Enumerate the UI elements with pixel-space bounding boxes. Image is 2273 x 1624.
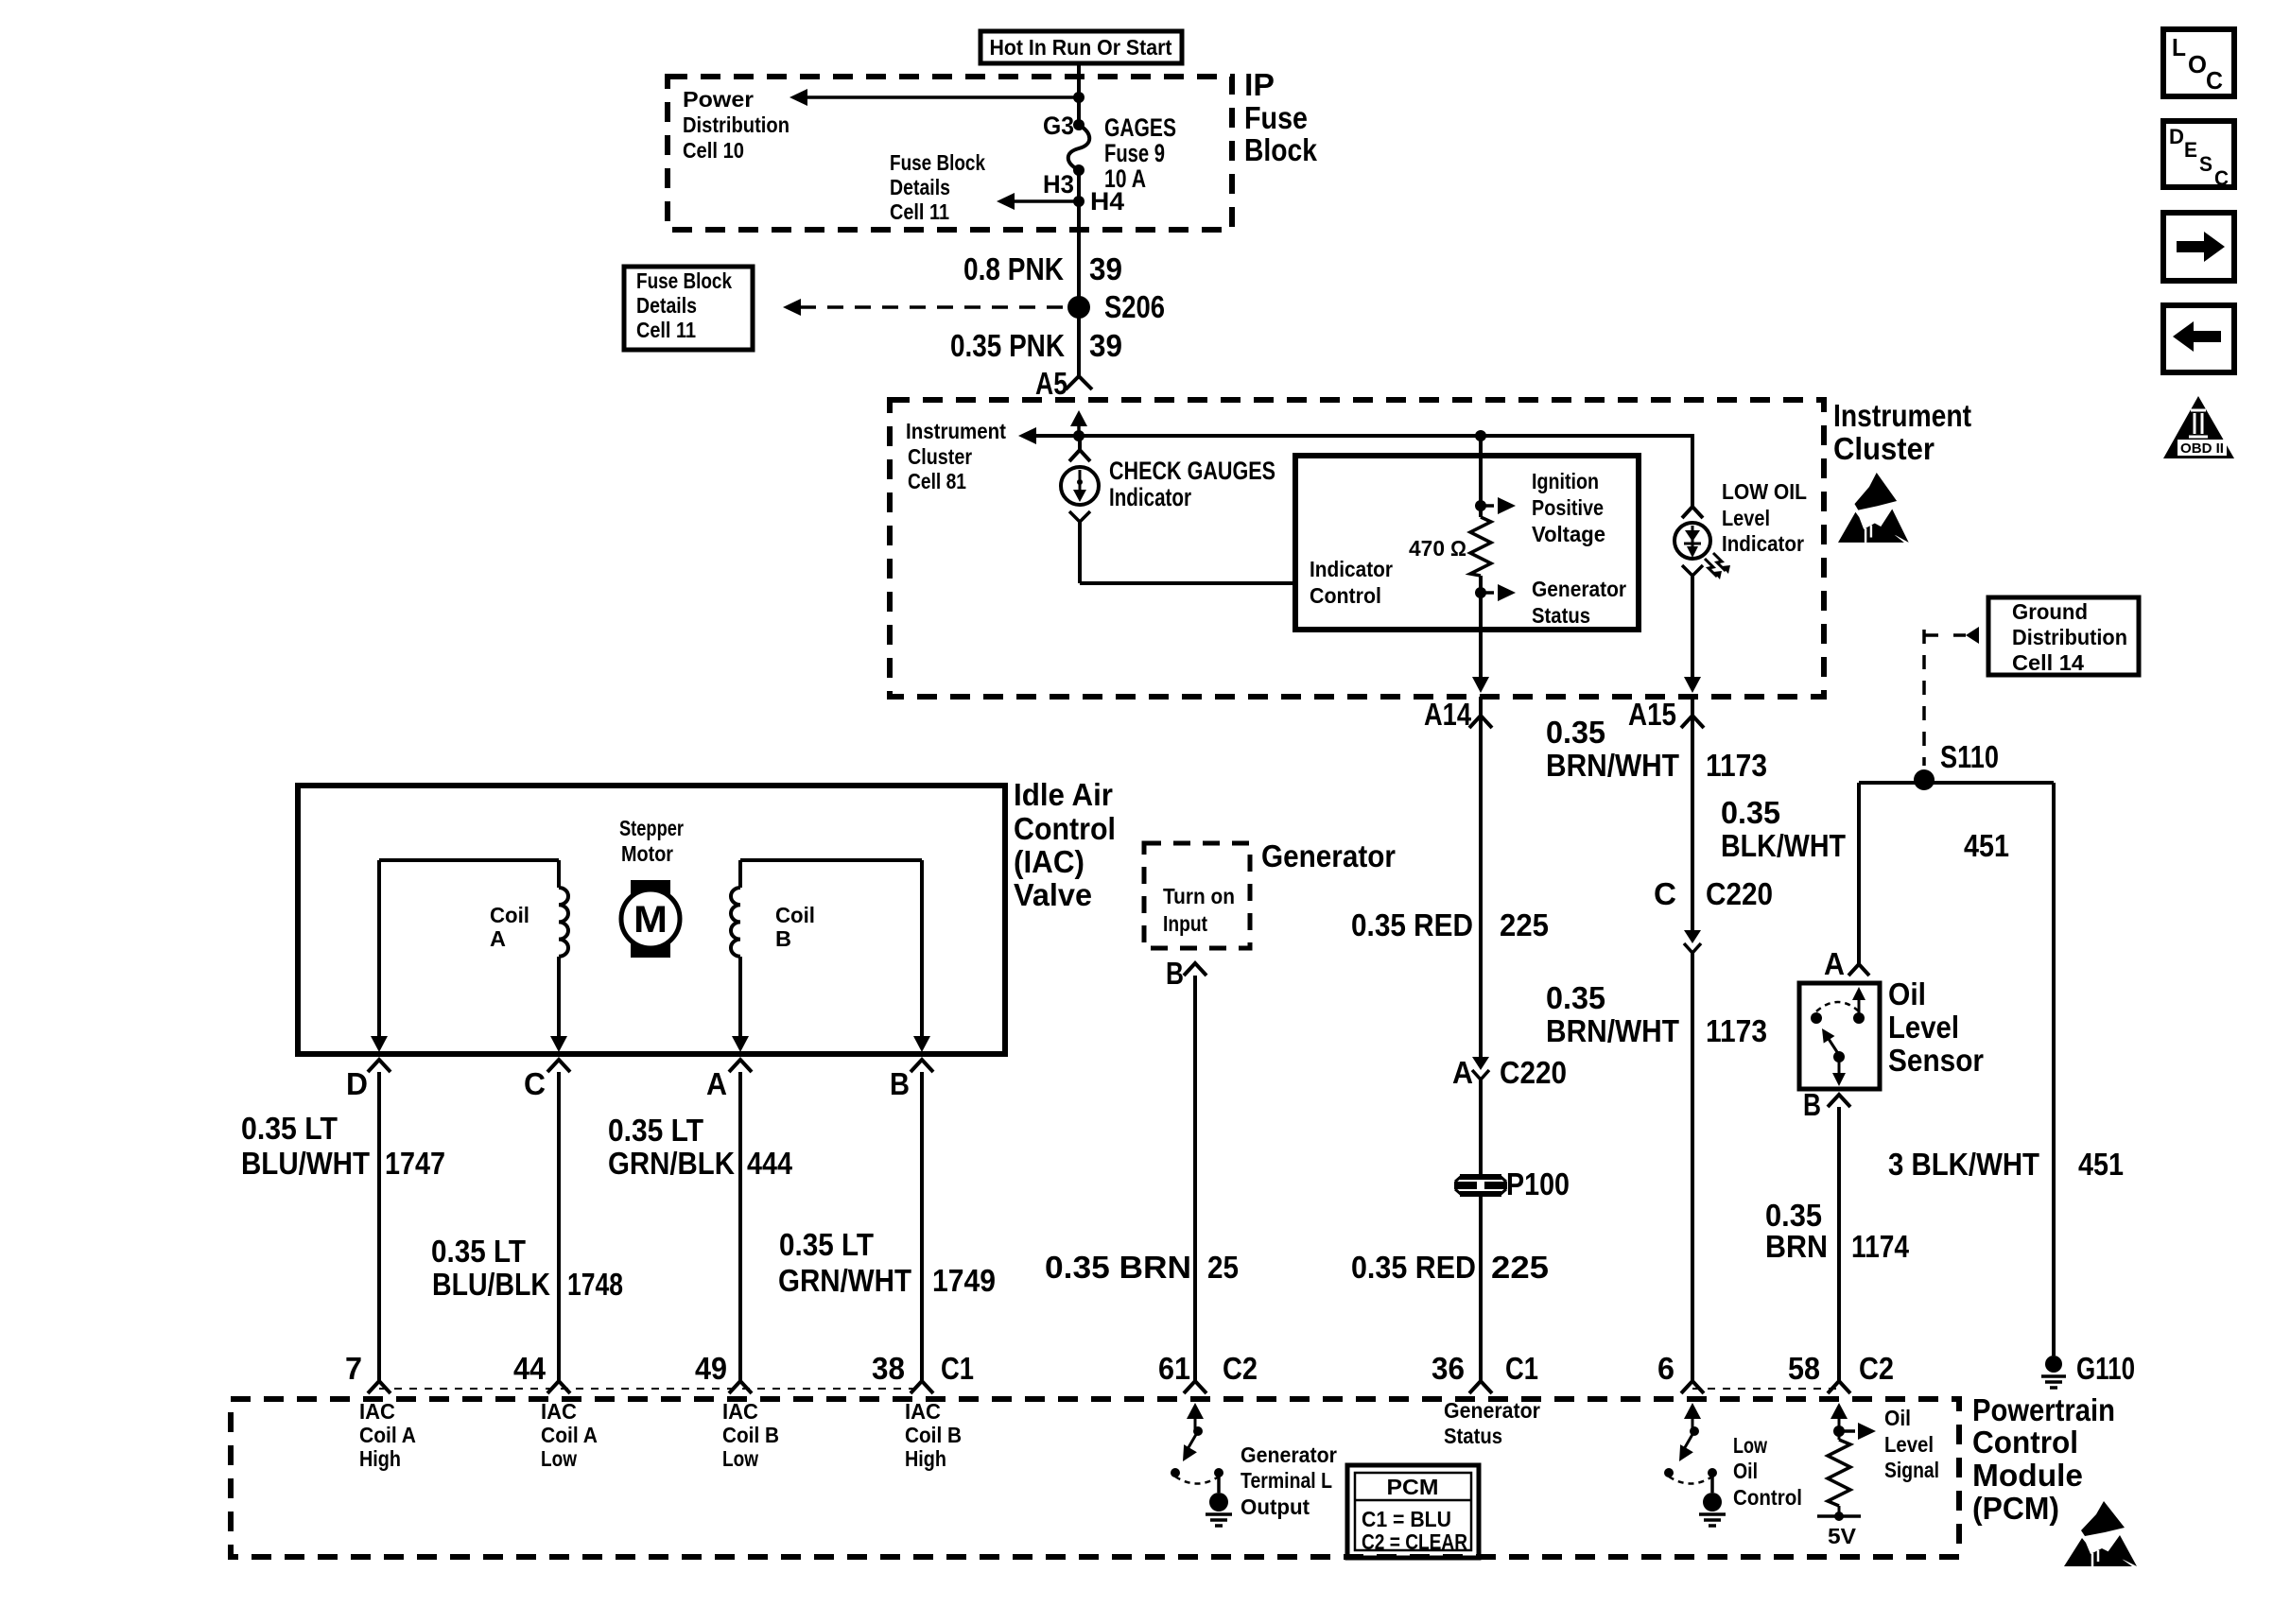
wire: resistor branch from bus	[1479, 436, 1483, 517]
svg-text:Cluster: Cluster	[1833, 431, 1935, 466]
svg-text:Turn on: Turn on	[1163, 884, 1235, 908]
wire: C220 to P100	[1479, 1080, 1483, 1176]
svg-text:1173: 1173	[1706, 748, 1767, 783]
svg-text:Coil: Coil	[775, 903, 815, 927]
svg-text:P100: P100	[1506, 1166, 1570, 1201]
svg-text:A: A	[490, 926, 506, 951]
svg-text:Details: Details	[890, 175, 950, 199]
svg-text:Generator: Generator	[1444, 1398, 1540, 1423]
svg-text:Generator: Generator	[1261, 838, 1396, 873]
svg-text:39: 39	[1089, 328, 1122, 363]
reference box: Ground Distribution Cell 14	[1988, 597, 2139, 675]
svg-text:Voltage: Voltage	[1532, 522, 1605, 546]
svg-text:E: E	[2184, 138, 2197, 162]
svg-text:225: 225	[1500, 907, 1549, 942]
Generator dashed box	[1144, 843, 1250, 948]
svg-text:C: C	[524, 1066, 546, 1101]
wire: generator L terminal to PCM pin 61 (0.35 BRN 25)	[1193, 976, 1197, 1380]
svg-text:(IAC): (IAC)	[1014, 844, 1084, 879]
svg-text:Signal: Signal	[1884, 1458, 1939, 1482]
svg-text:Coil B: Coil B	[722, 1423, 779, 1447]
splice S206 with dashed arrow to Fuse Block Details	[783, 299, 801, 316]
svg-text:7: 7	[345, 1351, 362, 1386]
svg-text:C: C	[2214, 166, 2229, 190]
svg-text:High: High	[905, 1446, 946, 1471]
connector line (thin dashed, pins 6-58)	[1692, 1388, 1839, 1390]
svg-text:Control: Control	[1733, 1485, 1802, 1510]
svg-text:Oil: Oil	[1884, 1406, 1911, 1430]
svg-text:Level: Level	[1722, 506, 1770, 530]
svg-text:Fuse Block: Fuse Block	[636, 268, 732, 293]
icon: ESD warning symbol (instrument cluster)	[1838, 473, 1909, 543]
svg-text:S110: S110	[1940, 739, 1999, 774]
PCM connector legend box	[1347, 1465, 1479, 1558]
switch: generator terminal L output	[1187, 1403, 1204, 1419]
wire: A14 exit from cluster	[1479, 630, 1483, 679]
svg-text:0.35 LT: 0.35 LT	[431, 1234, 526, 1269]
wire: S110 down to oil level sensor A (0.35 BLK/WHT 451)	[1857, 783, 1861, 964]
svg-text:BRN/WHT: BRN/WHT	[1546, 748, 1679, 783]
svg-text:Hot In Run Or Start: Hot In Run Or Start	[990, 35, 1172, 60]
svg-text:0.35 RED: 0.35 RED	[1351, 907, 1473, 942]
box: Oil Level Sensor	[1799, 983, 1880, 1089]
svg-text:B: B	[775, 926, 791, 951]
dashed arrow: S110 to Ground Distribution Cell 14	[1922, 630, 1926, 766]
reference box: Fuse Block Details Cell 11	[624, 267, 753, 350]
svg-text:CHECK GAUGES: CHECK GAUGES	[1109, 457, 1275, 485]
svg-text:Motor: Motor	[621, 841, 673, 866]
svg-text:Positive: Positive	[1532, 495, 1604, 520]
resistor 470 ohm	[1470, 517, 1491, 576]
wire: C220 to PCM pin 6 (0.35 BRN/WHT 1173)	[1691, 953, 1694, 1380]
wire: A15 exit from cluster	[1691, 576, 1694, 679]
fuse F9: GAGES Fuse 9 10 A	[1073, 119, 1084, 130]
svg-text:OBD II: OBD II	[2180, 441, 2224, 457]
wire: IAC C to PCM 44 (0.35 LT BLU/BLK 1748)	[557, 1072, 561, 1380]
svg-text:44: 44	[513, 1351, 547, 1386]
svg-text:Module: Module	[1972, 1458, 2083, 1493]
svg-text:36: 36	[1431, 1351, 1465, 1386]
splice S110	[1914, 769, 1935, 790]
svg-text:C: C	[2206, 66, 2223, 95]
svg-text:Fuse Block: Fuse Block	[890, 150, 985, 175]
svg-text:GRN/WHT: GRN/WHT	[778, 1263, 911, 1298]
stepper motor M symbol	[631, 880, 670, 896]
svg-text:G3: G3	[1043, 112, 1074, 140]
svg-text:3 BLK/WHT: 3 BLK/WHT	[1888, 1147, 2039, 1182]
oil level sensor switch internals	[1852, 987, 1865, 1000]
svg-text:Cell 81: Cell 81	[908, 469, 966, 493]
svg-text:Cell 11: Cell 11	[636, 318, 696, 342]
icon: ESD warning symbol (PCM)	[2064, 1501, 2137, 1566]
svg-text:Stepper: Stepper	[619, 816, 684, 840]
svg-text:Idle Air: Idle Air	[1014, 777, 1113, 812]
svg-text:C1: C1	[1505, 1351, 1538, 1386]
svg-text:C2: C2	[1859, 1351, 1894, 1386]
svg-text:Low: Low	[541, 1446, 577, 1471]
svg-text:49: 49	[695, 1351, 727, 1386]
svg-text:Distribution: Distribution	[2012, 625, 2127, 649]
svg-text:IAC: IAC	[541, 1399, 577, 1424]
svg-text:0.35 PNK: 0.35 PNK	[950, 328, 1065, 363]
svg-text:Instrument: Instrument	[1833, 398, 1971, 433]
svg-text:C: C	[1654, 876, 1676, 911]
svg-text:High: High	[359, 1446, 401, 1471]
wire: sensor B to PCM pin 58 (0.35 BRN 1174)	[1837, 1107, 1841, 1380]
svg-text:Powertrain: Powertrain	[1972, 1392, 2115, 1427]
grommet P100	[1460, 1174, 1501, 1180]
svg-text:Oil: Oil	[1733, 1459, 1758, 1483]
svg-text:Ω: Ω	[1450, 536, 1466, 561]
Powertrain Control Module dashed box	[231, 1399, 1959, 1557]
svg-text:Details: Details	[636, 293, 697, 318]
svg-text:Coil A: Coil A	[541, 1423, 598, 1447]
svg-text:Coil B: Coil B	[905, 1423, 962, 1447]
svg-text:Terminal L: Terminal L	[1241, 1468, 1332, 1493]
svg-text:61: 61	[1158, 1351, 1190, 1386]
wire: IAC D to PCM 7 (0.35 LT BLU/WHT 1747)	[377, 1072, 381, 1380]
box: Indicator Control	[1295, 456, 1639, 630]
svg-text:Status: Status	[1444, 1424, 1502, 1448]
svg-text:Indicator: Indicator	[1722, 531, 1804, 556]
wire: A15 to C220 pin C (0.35 BRN/WHT 1173)	[1691, 697, 1694, 930]
svg-text:L: L	[2172, 33, 2186, 61]
svg-text:GRN/BLK: GRN/BLK	[608, 1146, 735, 1181]
svg-text:Generator: Generator	[1241, 1443, 1337, 1467]
svg-text:5V: 5V	[1828, 1524, 1857, 1548]
svg-text:A5: A5	[1035, 366, 1067, 401]
pull-up resistor to 5V	[1831, 1403, 1848, 1419]
svg-text:IAC: IAC	[722, 1399, 758, 1424]
svg-text:0.35 LT: 0.35 LT	[241, 1111, 338, 1146]
svg-text:H4: H4	[1090, 187, 1124, 216]
ground G110	[2045, 1356, 2062, 1373]
svg-text:0.35: 0.35	[1721, 795, 1780, 830]
svg-text:Control: Control	[1972, 1425, 2078, 1460]
wire: 0.8 PNK 39 segment	[1077, 170, 1081, 376]
svg-text:0.35: 0.35	[1765, 1198, 1822, 1233]
svg-text:C1 = BLU: C1 = BLU	[1362, 1507, 1451, 1531]
svg-text:0.8 PNK: 0.8 PNK	[963, 251, 1064, 286]
svg-text:Ground: Ground	[2012, 599, 2088, 624]
svg-text:M: M	[633, 899, 668, 941]
svg-text:444: 444	[747, 1146, 793, 1181]
arrow: to Power Distribution Cell 10	[789, 89, 807, 106]
svg-text:0.35: 0.35	[1546, 715, 1605, 750]
svg-text:Distribution: Distribution	[683, 112, 789, 137]
svg-text:Sensor: Sensor	[1888, 1043, 1984, 1078]
svg-text:BRN: BRN	[1765, 1229, 1828, 1264]
svg-text:B: B	[1166, 956, 1184, 991]
svg-text:IP: IP	[1244, 67, 1275, 102]
box: Idle Air Control (IAC) Valve	[298, 786, 1005, 1054]
icon: DESC box	[2163, 121, 2234, 187]
svg-text:Input: Input	[1163, 911, 1207, 936]
svg-text:25: 25	[1207, 1250, 1239, 1285]
svg-text:Fuse: Fuse	[1244, 100, 1308, 135]
svg-text:LOW OIL: LOW OIL	[1722, 479, 1807, 504]
wire: cluster internal bus to indicator control and low oil LED	[1018, 427, 1036, 444]
svg-text:0.35 RED: 0.35 RED	[1351, 1250, 1476, 1285]
arrow: A5 entry into cluster	[1070, 410, 1087, 426]
icon: forward arrow box	[2163, 213, 2234, 281]
svg-text:Status: Status	[1532, 603, 1590, 628]
svg-text:BLU/WHT: BLU/WHT	[241, 1146, 370, 1181]
svg-text:0.35: 0.35	[1546, 980, 1605, 1015]
svg-text:Indicator: Indicator	[1310, 557, 1393, 581]
icon: back arrow box	[2163, 305, 2234, 372]
icon: LED light emission arrows	[1705, 559, 1717, 577]
svg-text:C220: C220	[1500, 1055, 1567, 1090]
svg-text:C2 = CLEAR: C2 = CLEAR	[1362, 1529, 1467, 1554]
node + arrow: Ignition Positive Voltage	[1475, 500, 1486, 511]
svg-text:H3: H3	[1043, 170, 1074, 199]
svg-text:Cell 11: Cell 11	[890, 199, 949, 224]
svg-text:Ignition: Ignition	[1532, 469, 1599, 493]
svg-text:Fuse 9: Fuse 9	[1104, 139, 1165, 167]
node: junction at fuse feed	[1073, 92, 1084, 103]
svg-text:1747: 1747	[385, 1146, 445, 1181]
svg-text:Low: Low	[1733, 1433, 1767, 1458]
svg-text:A15: A15	[1628, 697, 1676, 732]
svg-text:D: D	[346, 1066, 368, 1101]
indicator lamp: CHECK GAUGES	[1078, 436, 1082, 452]
svg-text:451: 451	[2078, 1147, 2124, 1182]
svg-text:S206: S206	[1104, 289, 1165, 324]
svg-text:451: 451	[1964, 828, 2009, 863]
svg-text:Cell 10: Cell 10	[683, 138, 744, 163]
svg-text:Output: Output	[1241, 1494, 1310, 1519]
svg-text:Instrument: Instrument	[906, 419, 1006, 443]
svg-text:Control: Control	[1014, 811, 1116, 846]
svg-text:G110: G110	[2076, 1351, 2135, 1386]
Instrument Cluster dashed box	[890, 400, 1824, 697]
svg-text:BLU/BLK: BLU/BLK	[432, 1267, 550, 1302]
svg-text:0.35 LT: 0.35 LT	[779, 1227, 874, 1262]
svg-text:A: A	[1452, 1055, 1473, 1090]
svg-text:Cell 14: Cell 14	[2012, 650, 2084, 675]
wire: A14 to C220 pin A (0.35 RED 225)	[1479, 697, 1483, 1057]
svg-text:1173: 1173	[1706, 1013, 1767, 1048]
svg-text:A: A	[1824, 946, 1845, 981]
icon: OBD II triangle	[2163, 396, 2234, 458]
svg-text:(PCM): (PCM)	[1972, 1491, 2059, 1526]
svg-text:Coil: Coil	[490, 903, 529, 927]
svg-text:470: 470	[1409, 536, 1445, 561]
coil A winding + loop	[379, 858, 559, 862]
wire: S110 header	[1859, 781, 2054, 785]
svg-text:225: 225	[1491, 1250, 1549, 1285]
svg-text:O: O	[2188, 50, 2207, 78]
IP Fuse Block dashed box	[668, 77, 1232, 230]
svg-text:39: 39	[1089, 251, 1122, 286]
coil B winding + loop	[740, 858, 922, 862]
wire: P100 to PCM pin 36 (0.35 RED 225)	[1479, 1195, 1483, 1380]
icon: LOC box	[2163, 29, 2234, 96]
switch: low oil control	[1684, 1403, 1701, 1419]
svg-text:58: 58	[1788, 1351, 1820, 1386]
svg-text:B: B	[1803, 1087, 1821, 1122]
power label box: Hot In Run Or Start	[980, 31, 1182, 63]
svg-text:Block: Block	[1244, 132, 1318, 167]
svg-text:Low: Low	[722, 1446, 758, 1471]
svg-text:BLK/WHT: BLK/WHT	[1721, 828, 1846, 863]
svg-text:A: A	[706, 1066, 727, 1101]
svg-text:Power: Power	[683, 87, 754, 112]
svg-text:Level: Level	[1888, 1010, 1959, 1045]
wire: S110 down to G110 (3 BLK/WHT 451)	[2052, 783, 2056, 1356]
svg-text:BRN/WHT: BRN/WHT	[1546, 1013, 1679, 1048]
svg-text:A14: A14	[1424, 697, 1472, 732]
svg-text:0.35 BRN: 0.35 BRN	[1045, 1250, 1191, 1285]
svg-text:B: B	[890, 1066, 910, 1101]
svg-text:GAGES: GAGES	[1104, 113, 1176, 142]
svg-text:S: S	[2199, 152, 2212, 176]
svg-text:1748: 1748	[567, 1267, 623, 1302]
wire: IAC A to PCM 49 (0.35 LT GRN/BLK 444)	[738, 1072, 742, 1380]
indicator LED: LOW OIL	[1691, 436, 1694, 509]
node: H4 tap + arrow to Fuse Block Details Cell 11	[1073, 196, 1084, 207]
svg-text:6: 6	[1657, 1351, 1674, 1386]
svg-text:C2: C2	[1223, 1351, 1258, 1386]
svg-text:Oil: Oil	[1888, 976, 1926, 1011]
svg-text:IAC: IAC	[359, 1399, 395, 1424]
svg-text:C220: C220	[1706, 876, 1773, 911]
svg-text:Control: Control	[1310, 583, 1381, 608]
svg-text:C1: C1	[941, 1351, 974, 1386]
svg-text:PCM: PCM	[1387, 1475, 1439, 1499]
svg-text:Coil A: Coil A	[359, 1423, 416, 1447]
svg-text:38: 38	[872, 1351, 905, 1386]
svg-text:Cluster: Cluster	[908, 444, 972, 469]
wire: IAC B to PCM 38 (0.35 LT GRN/WHT 1749)	[920, 1072, 924, 1380]
wire: ignition feed down from Hot In Run Or Start	[1077, 63, 1081, 125]
node + arrow: Generator Status (cluster)	[1475, 587, 1486, 598]
svg-text:D: D	[2169, 125, 2184, 148]
svg-text:1174: 1174	[1851, 1229, 1910, 1264]
svg-text:1749: 1749	[932, 1263, 996, 1298]
svg-text:Valve: Valve	[1014, 877, 1092, 912]
connector line C1 (thin dashed)	[379, 1388, 922, 1390]
svg-text:IAC: IAC	[905, 1399, 941, 1424]
svg-text:Indicator: Indicator	[1109, 483, 1191, 511]
svg-text:0.35 LT: 0.35 LT	[608, 1113, 703, 1148]
svg-text:Generator: Generator	[1532, 577, 1626, 601]
svg-text:Level: Level	[1884, 1432, 1934, 1457]
